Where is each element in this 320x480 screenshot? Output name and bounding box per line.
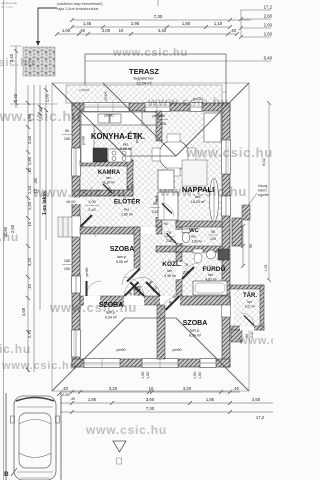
north triangle marker xyxy=(113,441,126,464)
svg-text:ker.: ker. xyxy=(123,143,129,147)
kitchen stove xyxy=(93,148,131,162)
wc toilet xyxy=(182,229,190,243)
svg-text:90/150: 90/150 xyxy=(104,91,108,101)
window top 3 small xyxy=(190,103,202,112)
inner wall kozl bottom long xyxy=(80,296,230,305)
svg-text:2,00: 2,00 xyxy=(102,28,111,33)
dim row top third xyxy=(55,32,239,36)
svg-text:,40: ,40 xyxy=(70,397,75,401)
door gap kozl/szoba-bl xyxy=(124,296,144,306)
door leaf furdo xyxy=(182,263,198,279)
svg-text:12,24 m²: 12,24 m² xyxy=(136,81,152,86)
svg-text:3,20: 3,20 xyxy=(183,386,192,391)
svg-text:1,80: 1,80 xyxy=(182,21,191,26)
svg-text:7,30: 7,30 xyxy=(154,14,163,19)
svg-text:hőszig.: hőszig. xyxy=(258,184,268,188)
door gap eloter/nappali xyxy=(156,203,163,217)
svg-text:www.csic.hu: www.csic.hu xyxy=(0,57,35,69)
left dim verticals xyxy=(10,46,58,372)
svg-text:2,60: 2,60 xyxy=(264,32,273,37)
svg-text:FÜRDŐ: FÜRDŐ xyxy=(202,264,225,273)
roof hip top-right xyxy=(176,83,249,156)
svg-text:pm90: pm90 xyxy=(173,348,182,352)
inner wall szoba-mid top xyxy=(80,227,162,234)
svg-text:SZOBA: SZOBA xyxy=(183,320,208,327)
dim row top second xyxy=(70,25,232,29)
svg-text:90: 90 xyxy=(164,222,168,226)
svg-text:2,40: 2,40 xyxy=(88,208,95,212)
top fold mark xyxy=(157,0,159,6)
roof hip bottom-right xyxy=(176,318,249,391)
svg-text:,10: ,10 xyxy=(27,283,32,289)
nappali plant xyxy=(210,178,219,222)
svg-text:,90: ,90 xyxy=(33,177,38,183)
svg-text:1,50: 1,50 xyxy=(193,372,197,379)
level marker entry xyxy=(65,198,85,205)
svg-text:1,45: 1,45 xyxy=(83,21,92,26)
label furdo xyxy=(202,264,225,282)
door label diag 90/210 szoba-br xyxy=(148,280,158,293)
svg-text:(vasbeton alap elvezetéssel): (vasbeton alap elvezetéssel) xyxy=(57,2,103,6)
door label 90/210 konyha stub xyxy=(158,114,168,126)
inner wall konyha/nappali stub xyxy=(156,111,162,141)
inner wall konyha/kamra xyxy=(80,160,133,166)
svg-text:,40: ,40 xyxy=(62,386,68,391)
door leaf front entry xyxy=(80,215,96,237)
svg-text:2,60: 2,60 xyxy=(252,397,261,402)
kitchen counter top run xyxy=(81,112,157,125)
pillar right wall xyxy=(232,218,242,246)
tile floor nappali lower + wc xyxy=(156,234,222,252)
furdo bathtub xyxy=(193,281,227,295)
door leaf szoba-bl swing2 xyxy=(124,277,144,296)
level -0,30 xyxy=(57,392,75,401)
svg-text:KONYHA-ÉTK.: KONYHA-ÉTK. xyxy=(91,132,145,141)
door label 100/240 entry xyxy=(85,200,99,212)
svg-text:210: 210 xyxy=(131,184,135,190)
bottom dim row2 xyxy=(60,401,273,405)
svg-text:1,85: 1,85 xyxy=(88,397,97,402)
door gap szoba-mid/kozl xyxy=(134,268,141,286)
svg-text:,40: ,40 xyxy=(233,386,239,391)
svg-text:ker.: ker. xyxy=(106,176,112,180)
door label diag 90/210 szoba-br2 xyxy=(167,294,178,306)
svg-text:90: 90 xyxy=(161,114,165,118)
roof ridge bottom xyxy=(125,317,176,319)
svg-text:75: 75 xyxy=(167,231,171,235)
svg-text:www.csic.hu: www.csic.hu xyxy=(1,360,77,372)
right small pillar xyxy=(242,205,250,220)
window bottom 1 xyxy=(84,359,120,368)
right ticks column xyxy=(241,224,245,268)
svg-text:90: 90 xyxy=(65,129,69,133)
svg-text:KÖZL.: KÖZL. xyxy=(162,259,182,268)
door gap wc xyxy=(176,230,183,243)
car body xyxy=(11,396,60,480)
window bottom 3 small xyxy=(200,359,216,368)
terasz step line xyxy=(66,91,226,93)
svg-text:2,95: 2,95 xyxy=(131,21,140,26)
eaves outline xyxy=(52,83,249,391)
door label 90/210 wc right xyxy=(208,230,218,241)
svg-text:www.csic.hu: www.csic.hu xyxy=(49,300,137,315)
svg-text:www.csic.hu: www.csic.hu xyxy=(185,145,273,160)
window right nappali xyxy=(222,140,231,174)
svg-text:ker.: ker. xyxy=(208,273,214,277)
svg-text:,40: ,40 xyxy=(230,28,237,33)
stone gravel strip xyxy=(23,47,55,76)
svg-text:1,05: 1,05 xyxy=(264,265,268,272)
svg-text:90: 90 xyxy=(211,230,215,234)
svg-text:4,60 m²: 4,60 m² xyxy=(205,278,217,282)
right annotation text xyxy=(258,184,269,197)
label nappali xyxy=(182,185,214,204)
svg-text:B: B xyxy=(4,471,9,478)
entry steps outside xyxy=(58,217,72,237)
svg-text:3,20: 3,20 xyxy=(109,386,118,391)
svg-text:pm90: pm90 xyxy=(85,268,89,277)
svg-text:8,06 m²: 8,06 m² xyxy=(120,147,133,151)
door gap kozl/szoba-br xyxy=(160,296,180,306)
svg-text:1,50: 1,50 xyxy=(146,372,150,379)
svg-text:1,10: 1,10 xyxy=(27,185,32,194)
svg-text:rajta 1,5cm teraszburkolat: rajta 1,5cm teraszburkolat xyxy=(57,7,98,11)
svg-text:10: 10 xyxy=(27,221,32,226)
svg-text:3,60: 3,60 xyxy=(146,397,155,402)
tile floor tar xyxy=(234,288,262,327)
svg-text:1,50: 1,50 xyxy=(198,372,202,379)
tar wall top xyxy=(230,285,264,289)
window left konyha xyxy=(72,148,81,176)
svg-text:külső t: külső t xyxy=(258,189,267,193)
svg-text:ker.: ker. xyxy=(167,269,173,273)
svg-text:lam.p.: lam.p. xyxy=(190,329,200,333)
svg-text:1,50: 1,50 xyxy=(141,372,145,379)
svg-text:±0,00: ±0,00 xyxy=(66,200,75,204)
svg-text:ker.: ker. xyxy=(247,300,252,304)
svg-text:1,10: 1,10 xyxy=(214,21,223,26)
page frame left edge xyxy=(3,0,5,480)
svg-text:1,00: 1,00 xyxy=(88,200,95,204)
svg-text:lam.p.: lam.p. xyxy=(117,255,127,259)
svg-text:4,68: 4,68 xyxy=(21,307,26,316)
window label 90/150 left xyxy=(62,129,72,141)
door leaf wc xyxy=(164,231,176,243)
terasz outline xyxy=(85,54,226,103)
svg-text:95: 95 xyxy=(249,244,253,248)
svg-text:210: 210 xyxy=(183,271,189,275)
svg-text:1,90: 1,90 xyxy=(27,156,32,165)
watermark www.csic.hu row1 left xyxy=(0,47,314,437)
svg-text:8,34 m²: 8,34 m² xyxy=(189,334,202,338)
kitchen counter left run xyxy=(81,125,94,163)
inner wall kamra right xyxy=(127,160,133,196)
svg-text:-0,30: -0,30 xyxy=(61,393,70,397)
svg-text:raj. 1,3m: raj. 1,3m xyxy=(1,5,13,9)
svg-text:www.csic.hu: www.csic.hu xyxy=(0,230,19,244)
window bottom 2 xyxy=(142,359,178,368)
window label 150/150 bottom1 xyxy=(141,372,150,379)
svg-text:17,2: 17,2 xyxy=(256,415,265,420)
furdo washbasin xyxy=(207,250,216,259)
door gap corridor eloter-kozl xyxy=(141,227,156,235)
outer wall bottom xyxy=(72,359,230,367)
svg-text:www.csic.hu: www.csic.hu xyxy=(85,423,167,437)
svg-text:www.csic.hu: www.csic.hu xyxy=(32,184,126,200)
nappali armchair xyxy=(158,170,174,190)
window left szoba-bottom xyxy=(72,330,81,357)
svg-text:9,34 m²: 9,34 m² xyxy=(105,316,118,320)
svg-text:ker.: ker. xyxy=(191,235,196,239)
svg-text:150: 150 xyxy=(64,259,70,263)
note leader arrow xyxy=(38,8,57,42)
svg-text:www.csic.hu: www.csic.hu xyxy=(0,108,81,124)
nappali tv rug xyxy=(182,160,207,186)
svg-text:4,39 m²: 4,39 m² xyxy=(164,274,176,278)
door leaf szoba-br xyxy=(142,277,160,296)
door label konyha entry rotated xyxy=(135,134,139,143)
inner wall wc left / furdo left xyxy=(176,221,182,296)
label szoba bottom-right xyxy=(183,320,208,338)
svg-text:10: 10 xyxy=(119,28,124,33)
door label diag 90/210 szoba-bl xyxy=(127,285,139,297)
section mark B xyxy=(4,468,17,478)
svg-text:www.csic.hu: www.csic.hu xyxy=(0,342,31,356)
svg-text:2,21 m²: 2,21 m² xyxy=(245,305,256,309)
tile floor corridor strip xyxy=(140,234,156,252)
svg-text:210: 210 xyxy=(160,122,166,126)
terasz tile floor xyxy=(66,85,222,103)
inner wall wc top xyxy=(176,221,222,227)
door leaf szoba-mid from kozl xyxy=(122,268,140,285)
svg-text:,40: ,40 xyxy=(79,28,86,33)
front door opening xyxy=(72,216,81,237)
window top 1 xyxy=(84,103,129,112)
step below tar xyxy=(231,330,242,342)
nappali sofa xyxy=(158,192,178,220)
label eloter xyxy=(114,197,141,217)
svg-text:www.csic.hu: www.csic.hu xyxy=(147,95,229,109)
window left szoba-mid xyxy=(72,276,81,293)
door leaf tar xyxy=(241,313,254,326)
door leaf szoba-left window side xyxy=(86,281,101,296)
outer wall left xyxy=(72,103,80,367)
svg-text:2,40: 2,40 xyxy=(13,93,18,102)
tar door gap xyxy=(240,326,254,331)
svg-text:10: 10 xyxy=(149,386,154,391)
tar wall bottom xyxy=(230,326,264,330)
tile floor konyha-etkezo-nappali xyxy=(80,111,222,234)
label konyha xyxy=(91,132,145,151)
inner wall eloter/nappali xyxy=(156,196,162,227)
door label 90/210 wc xyxy=(164,231,174,243)
svg-text:210: 210 xyxy=(166,239,172,243)
bottom dim row3 xyxy=(60,410,273,414)
label szoba mid xyxy=(110,246,135,264)
svg-text:www.csic.hu: www.csic.hu xyxy=(112,47,188,59)
inner wall kamra bottom xyxy=(80,190,133,196)
door leaf eloter-nappali xyxy=(162,203,174,217)
door gap szoba-mid/szoba-bl left xyxy=(84,296,100,306)
roof ridge xyxy=(125,155,176,157)
svg-text:3,20: 3,20 xyxy=(27,257,32,266)
svg-text:SZOBA: SZOBA xyxy=(110,246,135,253)
window top 2 xyxy=(145,103,170,112)
svg-text:1,00: 1,00 xyxy=(45,93,50,102)
window label 150/150 left2 xyxy=(62,259,72,271)
svg-text:egyréte: egyréte xyxy=(258,193,269,197)
right annotation leader xyxy=(247,193,257,207)
svg-text:pm90: pm90 xyxy=(105,114,114,118)
nappali dresser top xyxy=(204,113,221,142)
inner wall wc bottom xyxy=(176,246,222,252)
roof hip top-left xyxy=(52,83,125,156)
left dim labels xyxy=(3,93,50,338)
svg-text:1,00: 1,00 xyxy=(62,28,71,33)
roof valley terasz xyxy=(103,83,176,156)
svg-text:150: 150 xyxy=(64,137,70,141)
svg-text:90: 90 xyxy=(153,202,157,206)
inner wall szoba divider bottom xyxy=(157,305,165,359)
label tar xyxy=(243,292,257,309)
svg-text:pm90: pm90 xyxy=(117,348,126,352)
svg-text:pm90: pm90 xyxy=(82,136,86,145)
bottom dim row1 xyxy=(60,390,240,394)
svg-text:4,40: 4,40 xyxy=(158,28,167,33)
door label 90/210 tar rotated xyxy=(245,332,254,338)
door gap furdo xyxy=(176,262,183,279)
svg-text:www.csic.hu: www.csic.hu xyxy=(238,335,273,347)
svg-text:7,30: 7,30 xyxy=(146,406,155,411)
door label 90/210 eloter xyxy=(150,202,160,214)
svg-text:2,50: 2,50 xyxy=(27,135,32,144)
svg-text:150: 150 xyxy=(64,267,70,271)
svg-text:,10: ,10 xyxy=(27,167,32,173)
dining table xyxy=(152,134,196,176)
label kozl xyxy=(162,259,189,278)
outer wall top xyxy=(72,103,230,111)
svg-text:18,25 m²: 18,25 m² xyxy=(191,200,206,204)
car parking lines xyxy=(5,393,7,480)
svg-text:2,80 m²: 2,80 m² xyxy=(121,213,133,217)
inner wall szoba-mid/kozl xyxy=(134,227,140,296)
outer wall right xyxy=(222,103,230,367)
furdo wc xyxy=(193,249,203,263)
svg-text:1,40: 1,40 xyxy=(27,201,32,210)
label szoba bottom-left xyxy=(99,302,124,320)
window right nappali 2 xyxy=(222,196,231,216)
svg-text:210: 210 xyxy=(152,210,158,214)
svg-text:2,60: 2,60 xyxy=(264,23,273,28)
label kamra xyxy=(98,170,121,185)
tar wall right xyxy=(260,285,264,330)
svg-text:60: 60 xyxy=(126,186,130,190)
furdo washing machine xyxy=(218,249,229,260)
svg-text:1,80 m²: 1,80 m² xyxy=(192,240,203,244)
svg-text:2,05/95: 2,05/95 xyxy=(79,88,89,92)
roof hip bottom-left xyxy=(52,318,125,391)
door label kamra rotated xyxy=(126,184,135,190)
svg-text:1,85: 1,85 xyxy=(206,397,215,402)
right dim col 6.02 xyxy=(267,101,271,282)
svg-text:17,2: 17,2 xyxy=(264,5,273,10)
svg-text:9,95 m²: 9,95 m² xyxy=(116,260,129,264)
svg-text:ker.: ker. xyxy=(124,208,130,212)
door leaf szoba-br swing2 xyxy=(160,296,180,315)
door leaf kamra xyxy=(101,182,112,193)
svg-text:6,40: 6,40 xyxy=(264,56,273,61)
svg-text:TÁR.: TÁR. xyxy=(243,292,257,299)
window label 150/150 bottom2 xyxy=(193,372,202,379)
right edge site dims xyxy=(85,10,271,61)
inner wall nappali bottom xyxy=(156,246,182,252)
svg-text:www.csic.hu: www.csic.hu xyxy=(159,184,247,199)
svg-text:210: 210 xyxy=(210,237,216,241)
dim row top 7.30 xyxy=(70,18,251,22)
opening right to tar xyxy=(222,297,231,317)
svg-text:2,70: 2,70 xyxy=(27,329,32,338)
tile floor kozl + furdo xyxy=(140,252,222,305)
svg-text:2,60: 2,60 xyxy=(264,14,273,19)
svg-text:WC: WC xyxy=(189,228,198,234)
label wc xyxy=(189,228,202,244)
door leaf szoba-bl xyxy=(124,277,144,296)
kitchen fridge xyxy=(142,112,156,125)
svg-text:75: 75 xyxy=(184,263,188,267)
kitchen sink xyxy=(98,114,109,123)
